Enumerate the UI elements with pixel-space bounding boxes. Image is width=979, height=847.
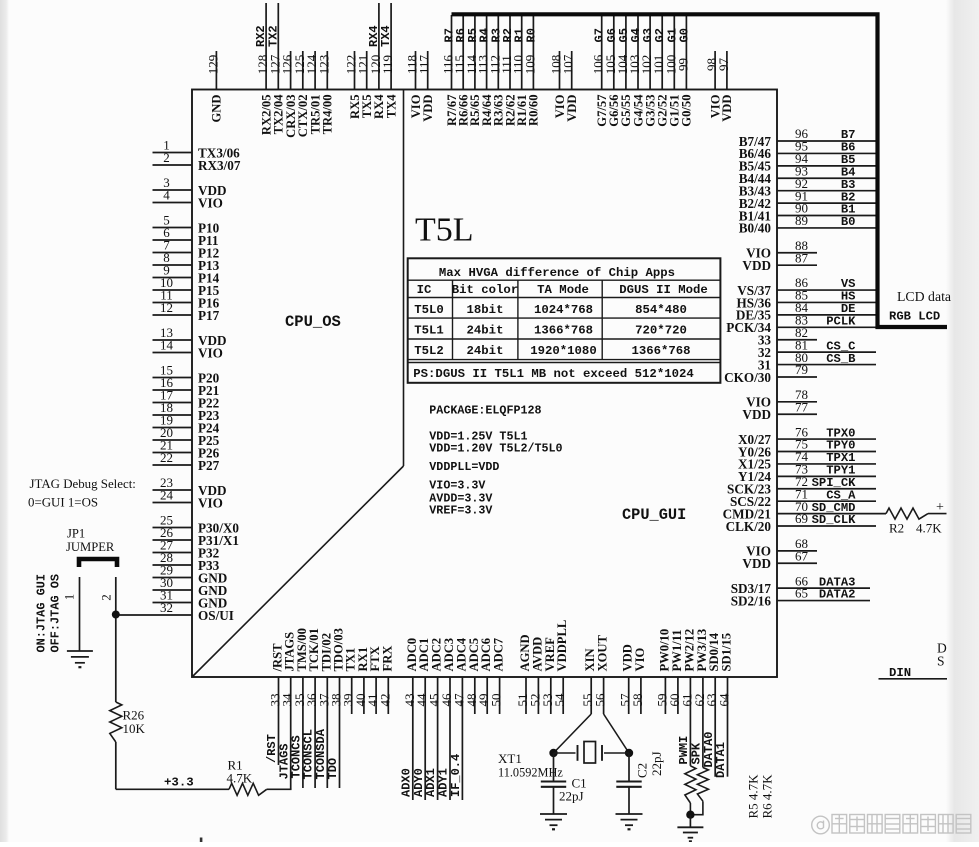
- pin 73 Y1/24 net TPY1: [738, 462, 876, 485]
- pin 61 PW2/12: [677, 629, 696, 766]
- svg-text:XOUT: XOUT: [596, 635, 610, 672]
- ground under C1: [540, 813, 567, 815]
- svg-text:CPU_GUI: CPU_GUI: [622, 506, 686, 524]
- pin 1 TX3/06: [153, 138, 241, 161]
- pin 98 VIO: [704, 51, 722, 118]
- svg-text:R6 4.7K: R6 4.7K: [760, 774, 775, 819]
- pin 101 G2/52: [651, 15, 669, 127]
- pin 57 VDD: [618, 644, 635, 714]
- pin 33 /RST: [265, 643, 284, 765]
- svg-text:119: 119: [380, 55, 395, 74]
- pin 119 TX4: [379, 3, 398, 118]
- op-amp U? : T5L chip body outline ELQFP128: [192, 90, 777, 678]
- svg-text:123: 123: [316, 55, 331, 75]
- svg-text:854*480: 854*480: [635, 303, 687, 317]
- svg-text:GND: GND: [210, 95, 224, 123]
- resistor R1 4.7K: [227, 758, 267, 796]
- svg-text:G0/50: G0/50: [680, 95, 694, 127]
- svg-text:T5L: T5L: [415, 212, 474, 249]
- pin 123 TR4/00: [316, 51, 334, 134]
- svg-text:B0/40: B0/40: [739, 221, 772, 236]
- svg-text:1366*768: 1366*768: [534, 323, 593, 337]
- pin 46 ADC3: [437, 638, 456, 800]
- svg-text:SD_CLK: SD_CLK: [812, 513, 857, 527]
- pin 78 VIO: [746, 387, 817, 410]
- svg-text:129: 129: [205, 55, 220, 75]
- svg-text:+: +: [936, 500, 944, 515]
- svg-text:2: 2: [163, 150, 170, 165]
- svg-text:VDDPLL: VDDPLL: [555, 620, 569, 672]
- ground under R5/R6: [689, 815, 691, 828]
- pin 7 P12: [153, 238, 220, 261]
- svg-text:P17: P17: [198, 308, 220, 323]
- resistor R26 10K: [110, 702, 146, 742]
- svg-text:ON:JTAG GUI: ON:JTAG GUI: [35, 574, 49, 653]
- svg-text:SD2/16: SD2/16: [731, 593, 772, 608]
- pin 25 P30/X0: [153, 513, 240, 536]
- svg-text:89: 89: [795, 213, 808, 228]
- pin 68 VIO: [746, 536, 817, 559]
- svg-text:10K: 10K: [123, 721, 146, 736]
- pin 110 R1/61: [511, 15, 529, 126]
- svg-text:SD1/15: SD1/15: [720, 633, 734, 672]
- pin 51 AGND: [515, 634, 532, 714]
- wire R26 to +3.3 rail: [115, 742, 117, 789]
- svg-text:79: 79: [795, 362, 808, 377]
- svg-text:VDD=1.20V T5L2/T5L0: VDD=1.20V T5L2/T5L0: [429, 442, 562, 456]
- svg-text:XT1: XT1: [498, 751, 522, 766]
- pin 95 B6/46 net B6: [739, 139, 876, 162]
- svg-text:JUMPER: JUMPER: [66, 540, 115, 554]
- pin 5 P10: [153, 213, 220, 236]
- svg-text:2: 2: [100, 594, 114, 600]
- node junction dot OS/UI: [112, 611, 120, 619]
- svg-text:S: S: [937, 654, 945, 669]
- pin 34 JTAGS: [277, 632, 296, 789]
- pin 128 RX2/05: [254, 3, 273, 135]
- svg-text:PACKAGE:ELQFP128: PACKAGE:ELQFP128: [429, 404, 541, 418]
- pin 19 P24: [153, 413, 220, 436]
- wire JP1 pin2 down to R26 and node to pin 32: [115, 577, 117, 702]
- svg-text:RX3/07: RX3/07: [198, 158, 241, 173]
- svg-text:VDD: VDD: [742, 258, 771, 273]
- svg-text:R0: R0: [524, 28, 538, 42]
- svg-text:TX2: TX2: [266, 25, 280, 47]
- pin 23 VDD: [153, 475, 227, 498]
- svg-text:G0: G0: [677, 28, 691, 42]
- pin 49 ADC6: [476, 638, 493, 714]
- pin 54 VDDPLL: [552, 620, 569, 714]
- pin 106 G7/57: [591, 15, 609, 127]
- svg-text:22: 22: [160, 450, 173, 465]
- svg-text:VIO: VIO: [633, 648, 647, 672]
- pin 47 ADC4: [449, 637, 468, 800]
- pin 35 TMS/00: [290, 628, 309, 788]
- pin 18 P23: [153, 400, 220, 423]
- pin 93 B4/44 net B4: [739, 163, 876, 186]
- svg-text:DIN: DIN: [889, 666, 911, 680]
- svg-text:87: 87: [795, 250, 809, 265]
- pin 118 VIO: [405, 51, 423, 118]
- pin 24 VIO: [153, 488, 223, 511]
- pin 10 P15: [153, 275, 220, 298]
- svg-text:CPU_OS: CPU_OS: [285, 313, 341, 331]
- pin 103 G4/54: [627, 15, 645, 127]
- svg-text:4: 4: [163, 188, 170, 203]
- svg-text:T5L2: T5L2: [414, 344, 444, 358]
- pin 117 VDD: [417, 51, 435, 122]
- svg-text:58: 58: [630, 694, 645, 707]
- svg-text:VDD: VDD: [720, 95, 734, 122]
- pin 69 CLK/20 net SD_CLK: [726, 511, 876, 534]
- svg-text:0=GUI 1=OS: 0=GUI 1=OS: [28, 496, 98, 510]
- watermark juejin (CJK glyphs approximated): [812, 815, 971, 834]
- pin 4 VIO: [153, 188, 223, 211]
- pin 32 OS/UI: [116, 600, 234, 623]
- pin 81 32 net CS_C: [758, 337, 876, 360]
- pin 105 G6/56: [603, 15, 621, 127]
- svg-text:+3.3: +3.3: [164, 776, 194, 790]
- pin 64 SD1/15: [714, 633, 733, 778]
- pin 65 SD2/16 net DATA2: [731, 586, 870, 609]
- wire R1 to pin34: [267, 788, 292, 790]
- node xtal left junction: [549, 749, 557, 757]
- pin 79 CKO/30: [724, 362, 817, 385]
- svg-text:117: 117: [417, 54, 432, 74]
- svg-text:VDDPLL=VDD: VDDPLL=VDD: [429, 460, 499, 474]
- pin 16 P21: [153, 375, 220, 398]
- svg-text:22pJ: 22pJ: [649, 751, 664, 776]
- pin 13 VDD: [153, 325, 227, 348]
- internal divider between CPU_OS and CPU_GUI: [403, 90, 405, 467]
- pin 60 PW1/11: [667, 630, 684, 714]
- pin 85 HS/36 net HS: [737, 288, 876, 311]
- svg-text:Bit color: Bit color: [452, 283, 518, 297]
- svg-text:54: 54: [552, 693, 567, 707]
- svg-text:OFF:JTAG OS: OFF:JTAG OS: [49, 574, 63, 653]
- pin 116 R7/67: [441, 15, 459, 126]
- pin 88 VIO: [746, 238, 817, 261]
- svg-text:C2: C2: [635, 763, 650, 778]
- wire XIN diagonal: [554, 714, 592, 753]
- pin 112 R3/63: [487, 15, 505, 126]
- pin 89 B0/40 net B0: [739, 213, 876, 236]
- pin 28 P33: [153, 550, 220, 573]
- capacitor C1 22pJ: [541, 753, 587, 814]
- pin 104 G5/55: [615, 15, 633, 127]
- svg-text:4.7K: 4.7K: [227, 771, 253, 786]
- svg-text:T5L1: T5L1: [414, 323, 444, 337]
- svg-text:JP1: JP1: [67, 527, 85, 541]
- pin 2 RX3/07: [153, 150, 241, 173]
- crystal XT1 11.0592MHz: [498, 742, 629, 780]
- svg-text:12: 12: [160, 300, 173, 315]
- pin 55 XIN: [580, 648, 597, 714]
- pin 84 DE/35 net DE: [736, 300, 876, 323]
- pin 71 SCS/22 net CS_A: [730, 486, 876, 509]
- svg-text:24: 24: [160, 488, 174, 503]
- svg-text:PS:DGUS II T5L1 MB not exceed: PS:DGUS II T5L1 MB not exceed 512*1024: [413, 367, 694, 381]
- pin 76 X0/27 net TPX0: [738, 424, 876, 447]
- svg-text:JTAG Debug Select:: JTAG Debug Select:: [30, 477, 136, 491]
- pin 41 FTX: [365, 646, 382, 714]
- pin 40 RX1: [353, 647, 370, 714]
- pin 63 SD0/14: [702, 632, 721, 776]
- svg-text:VIO: VIO: [198, 195, 223, 210]
- svg-text:R5 4.7K: R5 4.7K: [746, 774, 761, 819]
- svg-text:VIO: VIO: [198, 345, 223, 360]
- pin 11 P16: [153, 288, 220, 311]
- pin 100 G1/51: [663, 15, 681, 127]
- pin 12 P17: [153, 300, 220, 323]
- ground under C2: [616, 813, 643, 815]
- pin 15 P20: [153, 363, 220, 386]
- label PACKAGE and voltage notes: [429, 404, 562, 518]
- svg-text:1920*1080: 1920*1080: [530, 344, 596, 358]
- resistor R6 4.7K (SPK): [697, 768, 708, 802]
- pin 29 GND: [153, 563, 228, 586]
- pin 17 P22: [153, 388, 220, 411]
- pin 48 ADC5: [464, 638, 481, 714]
- svg-text:77: 77: [795, 399, 809, 414]
- pin 31 GND: [153, 588, 228, 611]
- resistor R2 4.7K on SD_CMD pullup to +: [886, 500, 947, 536]
- capacitor C2 22pJ: [616, 751, 664, 814]
- svg-text:PCLK: PCLK: [826, 315, 856, 329]
- svg-text:IC: IC: [417, 283, 432, 297]
- pin 129 GND: [205, 51, 223, 123]
- pin 111 R2/62: [499, 15, 517, 126]
- svg-text:720*720: 720*720: [635, 323, 687, 337]
- pin 92 B3/43 net B3: [739, 176, 876, 199]
- svg-text:VREF=3.3V: VREF=3.3V: [429, 504, 492, 518]
- wire JP1 pin1 to ground: [79, 577, 81, 651]
- svg-text:FRX: FRX: [380, 646, 394, 672]
- pin 59 PW0/10: [654, 629, 671, 714]
- svg-text:22pJ: 22pJ: [559, 789, 584, 804]
- pin 80 31 net CS_B: [758, 350, 876, 373]
- svg-text:VDD: VDD: [421, 95, 435, 122]
- svg-text:1366*768: 1366*768: [631, 344, 690, 358]
- pin 126 CRX/03: [280, 51, 298, 138]
- pin 66 SD3/17 net DATA3: [731, 573, 870, 596]
- svg-text:18bit: 18bit: [467, 303, 504, 317]
- wire XOUT diagonal: [604, 714, 629, 753]
- ground under JP1 pin1: [67, 650, 93, 652]
- svg-text:VDD: VDD: [742, 556, 771, 571]
- pin 114 R5/65: [464, 15, 482, 126]
- svg-text:B0: B0: [841, 215, 856, 229]
- svg-text:42: 42: [377, 694, 392, 707]
- pin 52 AVDD: [527, 637, 544, 714]
- pin 107 VDD: [561, 51, 579, 122]
- pin 43 ADC0: [399, 638, 418, 800]
- LCD data bus (thick line): [452, 14, 948, 327]
- svg-text:TDO: TDO: [326, 758, 340, 780]
- pin 6 P11: [153, 225, 219, 248]
- pin 62 PW3/13: [690, 629, 709, 768]
- pin 96 B7/47 net B7: [739, 126, 876, 149]
- pin 115 R6/66: [452, 15, 470, 126]
- pin 70 CMD/21 net SD_CMD: [723, 499, 886, 522]
- pin 39 TX1: [341, 648, 358, 714]
- pin 53 VREF: [540, 637, 557, 714]
- pin 50 ADC7: [489, 638, 506, 714]
- svg-text:P27: P27: [198, 458, 220, 473]
- pin 121 TX5: [356, 51, 374, 118]
- svg-text:65: 65: [795, 586, 808, 601]
- svg-text:DGUS II Mode: DGUS II Mode: [619, 283, 708, 297]
- pin 67 VDD: [742, 548, 817, 571]
- svg-text:LCD data: LCD data: [897, 289, 951, 304]
- node R5/R6 junction: [689, 803, 691, 815]
- pin 86 VS/37 net VS: [737, 275, 876, 298]
- pin 45 ADC2: [424, 638, 443, 800]
- page frame tick at bottom: [200, 838, 203, 843]
- pin 21 P26: [153, 438, 220, 461]
- svg-text:DATA1: DATA1: [714, 742, 728, 778]
- svg-text:99: 99: [675, 58, 690, 71]
- svg-text:TX4: TX4: [384, 94, 398, 118]
- pin 75 Y0/26 net TPY0: [738, 437, 876, 460]
- svg-text:VIO=3.3V: VIO=3.3V: [429, 479, 485, 493]
- pin 26 P31/X1: [153, 525, 240, 548]
- pin 37 TDI/02: [314, 633, 333, 788]
- pin 36 TCK/01: [302, 628, 321, 788]
- pin 14 VIO: [153, 338, 223, 361]
- svg-text:Max HVGA difference of Chip Ap: Max HVGA difference of Chip Apps: [439, 266, 675, 280]
- svg-text:ADC7: ADC7: [492, 638, 506, 672]
- pin 44 ADC1: [412, 638, 431, 800]
- svg-text:R2: R2: [889, 521, 904, 536]
- pin 91 B2/42 net B2: [739, 188, 876, 211]
- jumper JP1: [66, 527, 117, 568]
- pin 127 TX2/04: [266, 3, 285, 134]
- pin 27 P32: [153, 538, 220, 561]
- pin 9 P14: [153, 263, 220, 286]
- svg-text:107: 107: [561, 54, 576, 74]
- svg-text:T5L0: T5L0: [414, 303, 444, 317]
- pin 99 G0/50: [675, 15, 693, 127]
- pin 58 VIO: [630, 648, 647, 714]
- svg-text:14: 14: [160, 338, 174, 353]
- pin 3 VDD: [153, 175, 227, 198]
- svg-text:CKO/30: CKO/30: [724, 370, 771, 385]
- pin 90 B1/41 net B1: [739, 201, 876, 224]
- svg-text:4.7K: 4.7K: [916, 521, 942, 536]
- svg-text:CS_B: CS_B: [826, 352, 856, 366]
- pin 22 P27: [153, 450, 220, 473]
- pin 20 P25: [153, 425, 220, 448]
- pin 108 VIO: [549, 51, 567, 118]
- svg-text:RGB LCD: RGB LCD: [889, 310, 940, 324]
- svg-text:67: 67: [795, 548, 809, 563]
- svg-text:TA Mode: TA Mode: [537, 283, 589, 297]
- pin 109 R0/60: [522, 15, 540, 126]
- pin 74 X1/25 net TPX1: [738, 449, 876, 472]
- svg-text:VDD: VDD: [742, 407, 771, 422]
- page right edge shading: [946, 0, 979, 842]
- svg-text:50: 50: [489, 694, 504, 707]
- pin 125 CTX/02: [292, 51, 310, 137]
- svg-text:VDD: VDD: [565, 95, 579, 122]
- table: Max HVGA difference of Chip Apps: [408, 258, 721, 383]
- svg-text:24bit: 24bit: [467, 344, 504, 358]
- svg-text:64: 64: [717, 693, 732, 707]
- pin 97 VDD: [716, 51, 734, 122]
- pin 102 G3/53: [639, 15, 657, 127]
- svg-text:97: 97: [716, 58, 731, 72]
- node xtal right junction: [625, 749, 633, 757]
- pin 72 SCK/23 net SPI_CK: [727, 474, 876, 497]
- svg-text:VIO: VIO: [198, 495, 223, 510]
- svg-text:R0/60: R0/60: [527, 95, 541, 126]
- pin 56 XOUT: [593, 635, 610, 714]
- svg-text:TX4: TX4: [379, 25, 393, 47]
- pin 77 VDD: [742, 399, 817, 422]
- svg-text:56: 56: [593, 693, 608, 707]
- svg-text:1024*768: 1024*768: [534, 303, 593, 317]
- svg-text:CLK/20: CLK/20: [726, 519, 772, 534]
- svg-text:TR4/00: TR4/00: [321, 95, 335, 135]
- svg-text:DATA2: DATA2: [819, 588, 856, 602]
- pin 42 FRX: [377, 646, 394, 714]
- pin 94 B5/45 net B5: [739, 151, 876, 174]
- pin 38 TDO/03: [326, 628, 345, 788]
- pin 113 R4/64: [476, 15, 494, 126]
- pin 122 RX5: [344, 51, 362, 119]
- svg-text:1: 1: [63, 594, 77, 600]
- pin 120 RX4: [367, 3, 386, 119]
- pin 83 PCK/34 net PCLK: [726, 313, 876, 336]
- svg-text:IF_0.4: IF_0.4: [449, 754, 463, 797]
- pin 82 33: [758, 325, 817, 348]
- svg-text:69: 69: [795, 511, 808, 526]
- svg-text:24bit: 24bit: [467, 323, 504, 337]
- pin 124 TR5/01: [304, 51, 322, 134]
- svg-text:32: 32: [160, 600, 173, 615]
- pin 8 P13: [153, 250, 220, 273]
- pin 30 GND: [153, 575, 228, 598]
- resistor R5 4.7K (PWMI): [685, 766, 696, 803]
- svg-text:109: 109: [522, 55, 537, 75]
- svg-text:OS/UI: OS/UI: [198, 608, 234, 623]
- pin 87 VDD: [742, 250, 817, 273]
